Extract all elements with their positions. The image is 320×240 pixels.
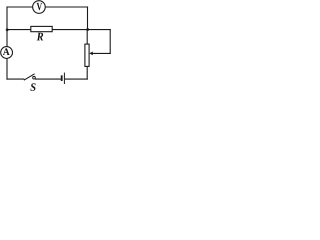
wire wiper right vertical [109,30,111,54]
wire wiper horizontal [92,52,110,54]
switch label S [30,83,35,91]
rheostat body [85,44,89,66]
switch S1 blade [24,74,35,80]
rheostat wiper arrowhead [89,52,93,56]
wire bottom right segment [65,78,87,80]
wire bottom middle segment [36,78,61,80]
wire voltmeter right lead down [87,7,89,30]
resistor R1 body [31,26,52,31]
voltmeter label V [37,3,42,10]
wire rheostat bottom lead [86,66,88,79]
ammeter A1 circle [1,47,13,59]
wire rheostat top lead [86,30,88,44]
wire top [7,6,88,8]
wire bottom left segment [7,78,24,80]
voltmeter U1 circle [33,1,46,14]
switch S1 contact circle [33,76,36,79]
wire left vertical [6,7,8,79]
battery cell positive plate (long thin) [63,73,65,84]
battery cell negative plate (short thick) [61,75,63,81]
node dot right [86,28,89,31]
node dot left [6,28,9,31]
wire middle horizontal [7,29,110,31]
resistor label R [37,33,44,41]
ammeter label A [3,48,10,55]
